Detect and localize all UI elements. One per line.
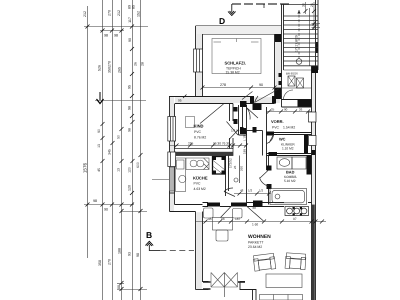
black sq corridor a	[234, 107, 238, 112]
kind wardrobe	[186, 117, 195, 128]
kueche labels	[193, 176, 208, 192]
dim v stair1	[305, 2, 307, 14]
svg-text:278: 278	[220, 83, 226, 87]
window kind west	[168, 117, 176, 142]
bad door swing	[260, 170, 269, 186]
entry door swing	[242, 92, 253, 100]
svg-text:15.38 M2: 15.38 M2	[226, 71, 240, 75]
extra left dim marks mid band	[97, 62, 145, 173]
landing cabinet a	[288, 76, 295, 86]
bathtub inner	[272, 190, 305, 203]
svg-text:25: 25	[271, 108, 275, 112]
gang door arcs	[260, 135, 274, 187]
wohnen door swing	[221, 207, 264, 222]
window wc east	[309, 136, 317, 146]
east wall outer	[315, 0, 317, 300]
bedroom right wall inner	[274, 34, 276, 100]
kind east wall line1	[229, 104, 231, 149]
svg-text:KÜCHE: KÜCHE	[193, 176, 208, 181]
svg-text:WC: WC	[279, 137, 286, 142]
step line y211	[170, 211, 196, 213]
svg-text:KIND: KIND	[194, 124, 204, 129]
dim line V1	[87, 6, 89, 258]
dim tick marks left block	[86, 25, 143, 292]
svg-text:90: 90	[259, 83, 263, 87]
kind door swing	[200, 104, 239, 140]
east wall stair edge	[317, 0, 319, 70]
svg-text:26: 26	[233, 165, 237, 169]
svg-text:B: B	[146, 230, 152, 240]
svg-text:188: 188	[118, 248, 122, 254]
black vorr door jamb right	[253, 127, 257, 133]
bed center	[236, 39, 238, 43]
dim connector y100	[95, 100, 146, 102]
svg-text:265: 265	[118, 67, 122, 73]
wohnen north wall segment fill1	[207, 203, 220, 207]
svg-text:120: 120	[128, 185, 132, 191]
svg-text:PVC: PVC	[194, 130, 202, 134]
svg-text:85: 85	[132, 5, 136, 9]
dining chair right	[233, 209, 243, 219]
svg-text:5.10 M2: 5.10 M2	[284, 179, 296, 183]
bedroom south wall inner	[175, 103, 275, 105]
black sq corridor b	[234, 119, 238, 124]
svg-text:48: 48	[240, 189, 244, 193]
dim line V4	[121, 0, 123, 300]
section marker D	[219, 4, 292, 26]
wall hatch fills (light)	[170, 27, 315, 290]
svg-text:270: 270	[108, 10, 112, 16]
stair treads	[284, 16, 319, 66]
svg-text:8.76 M2: 8.76 M2	[194, 136, 206, 140]
jamb bedroom door right	[272, 97, 276, 104]
dining table	[213, 218, 233, 231]
jamb entry left	[240, 101, 247, 107]
bedroom left wall inner	[202, 34, 204, 97]
dashed terrace line	[160, 250, 194, 252]
stairwell top wall	[282, 4, 319, 6]
east wall dark segment (wohnen)	[312, 205, 315, 300]
bedroom left wall outer	[195, 26, 197, 97]
bedroom top wall inner	[203, 33, 275, 35]
kind labels	[194, 124, 207, 140]
dim connector y283	[117, 283, 124, 285]
svg-text:98: 98	[128, 106, 132, 110]
svg-text:BAD: BAD	[286, 170, 295, 175]
black vorr door jamb left	[240, 127, 244, 133]
black bedroom east wall bottom	[275, 88, 281, 99]
black east wall stair corner	[312, 66, 319, 73]
svg-text:90: 90	[284, 108, 288, 112]
bottom couch	[260, 295, 303, 300]
svg-text:98: 98	[104, 34, 108, 38]
sofa 2	[285, 253, 306, 270]
black bad door jamb bottom	[267, 184, 272, 189]
svg-text:345: 345	[108, 149, 112, 155]
bad washbasin counter	[277, 157, 292, 169]
kueche sink circle 2	[197, 160, 204, 167]
svg-text:95: 95	[128, 85, 132, 89]
dim connector y211	[122, 211, 148, 213]
corridor gang extra details	[234, 156, 271, 194]
black bedroom east wall top	[275, 34, 281, 42]
wohnen south wall inner step	[240, 282, 253, 300]
svg-text:152: 152	[137, 11, 141, 17]
black bad east	[307, 156, 312, 175]
corridor east wall (kueche side)	[226, 156, 229, 197]
stair landing line	[284, 69, 312, 71]
right dim texts	[302, 3, 320, 48]
bathtub outer	[270, 189, 307, 205]
stair walk circle	[296, 59, 302, 65]
bad west wall	[267, 156, 269, 205]
dim line V3	[112, 0, 114, 300]
svg-text:45: 45	[97, 168, 101, 172]
black corridor c	[240, 128, 246, 134]
jamb bedroom door left	[250, 97, 254, 104]
black landing wall right	[298, 100, 312, 107]
svg-text:L 10: L 10	[243, 135, 247, 141]
bad cabinet	[292, 157, 306, 169]
kind interior dim line	[170, 145, 247, 147]
wc/bad divider	[267, 154, 312, 156]
svg-text:120: 120	[128, 167, 132, 173]
wohnen south wall right of door	[240, 282, 256, 300]
section marker A (left)	[97, 92, 104, 104]
svg-text:88: 88	[117, 285, 121, 289]
door leaf X left	[211, 273, 224, 288]
bed outline	[212, 39, 261, 74]
landing bottom wall	[282, 100, 312, 108]
svg-text:117: 117	[128, 17, 132, 23]
svg-text:50: 50	[117, 135, 121, 139]
vorr door swing	[267, 135, 274, 144]
svg-text:95: 95	[178, 99, 182, 103]
kind east wall line2	[232, 104, 234, 149]
svg-text:VORR.: VORR.	[271, 119, 284, 124]
svg-text:13: 13	[97, 144, 101, 148]
window kueche west	[168, 152, 176, 167]
corridor gang west line	[243, 107, 247, 205]
door threshold	[211, 286, 238, 288]
wohnen west wall outer	[195, 212, 197, 290]
svg-text:1 60: 1 60	[252, 223, 258, 227]
svg-text:260: 260	[240, 166, 244, 171]
kueche shaft box	[213, 157, 226, 175]
svg-text:270: 270	[108, 259, 112, 265]
svg-text:D: D	[219, 16, 225, 26]
vorr dim row	[266, 108, 312, 114]
east wall inner	[311, 66, 313, 300]
svg-text:45: 45	[208, 217, 212, 221]
svg-text:17x17.8/29: 17x17.8/29	[295, 35, 299, 52]
dim connector y289	[117, 289, 147, 291]
dim connector y179	[152, 179, 169, 181]
svg-text:90: 90	[128, 38, 132, 42]
svg-text:1/2 50: 1/2 50	[231, 129, 240, 133]
door leaf edge right	[237, 273, 239, 288]
dining chair bottom	[216, 230, 228, 241]
svg-text:WOHNEN: WOHNEN	[248, 234, 271, 240]
stairwell west wall outer	[281, 4, 283, 107]
door jamb stubs dark	[203, 282, 245, 289]
kueche round sink	[179, 175, 186, 182]
svg-text:98: 98	[93, 199, 97, 203]
bad south wall / wohnen north wall	[203, 203, 312, 207]
black east wall stair segment	[316, 42, 318, 53]
bedroom south wall outer	[169, 96, 282, 98]
bedroom top wall fill	[196, 26, 282, 34]
svg-text:28: 28	[141, 62, 145, 66]
stairwell west wall line2	[283, 4, 285, 70]
kueche counter left	[176, 158, 186, 192]
gang east line	[239, 156, 241, 184]
dim h right small	[312, 23, 321, 25]
dim v stair2	[313, 2, 315, 30]
bedroom door swing	[255, 89, 280, 103]
right dim ticks	[304, 9, 317, 30]
corridor strip lines	[239, 105, 247, 135]
pillow left	[214, 41, 222, 43]
door center post	[223, 273, 225, 298]
black stairwell wall jamb a	[279, 73, 282, 77]
black east wall bath segment	[312, 150, 316, 155]
black vorr/wc left	[266, 132, 274, 136]
step line kitchen south	[170, 192, 175, 194]
svg-text:PARKETT: PARKETT	[248, 241, 263, 245]
svg-text:98: 98	[136, 253, 140, 257]
black wc right wall	[304, 135, 308, 154]
svg-text:1576: 1576	[83, 162, 88, 173]
kind/kueche divider band	[175, 149, 234, 156]
entry corridor door arc	[247, 108, 259, 120]
svg-text:172/52: 172/52	[229, 158, 233, 168]
stair walk line	[298, 10, 300, 59]
svg-text:PVC: PVC	[272, 126, 280, 130]
wohnen west wall inner	[203, 212, 209, 282]
coffee table	[266, 274, 302, 288]
svg-text:SCHLAFZI.: SCHLAFZI.	[225, 61, 246, 66]
svg-text:90: 90	[315, 44, 319, 48]
svg-text:BR 90/26: BR 90/26	[286, 72, 298, 76]
gang dim line	[234, 193, 271, 195]
black bad north left	[269, 152, 278, 156]
svg-text:1.54 M2: 1.54 M2	[283, 126, 295, 130]
svg-text:98: 98	[128, 128, 132, 132]
pillow right	[251, 41, 259, 43]
svg-text:26: 26	[310, 3, 314, 7]
left dim texts (rotated)	[83, 5, 141, 289]
vorr/wc divider	[267, 133, 312, 135]
svg-text:1/2: 1/2	[259, 189, 264, 193]
kueche counter top hatched	[176, 158, 210, 192]
svg-text:68: 68	[253, 206, 257, 210]
door leaf X right	[224, 273, 237, 288]
svg-text:98: 98	[114, 34, 118, 38]
section marker B	[145, 230, 160, 251]
svg-text:97: 97	[293, 217, 297, 221]
west wall inner (KIND/KUECHE)	[174, 104, 176, 205]
door leaf edge left	[210, 273, 212, 288]
svg-text:255: 255	[188, 142, 194, 146]
wohnen south wall at door	[196, 289, 209, 291]
dim line V2	[102, 0, 104, 300]
bedroom top wall outer	[196, 25, 282, 27]
svg-text:358: 358	[98, 260, 102, 266]
svg-text:526: 526	[98, 65, 102, 71]
dim connector y205	[84, 204, 134, 206]
svg-text:30: 30	[302, 3, 306, 7]
svg-text:23.64 M2: 23.64 M2	[248, 245, 262, 249]
step dim 95	[178, 95, 187, 103]
svg-text:1.10 M2: 1.10 M2	[282, 147, 294, 151]
jamb entry black2	[253, 104, 262, 110]
vorr/wc west wall	[263, 107, 267, 156]
corridor south line y130	[247, 130, 263, 132]
svg-text:13: 13	[117, 168, 121, 172]
landing cabinet b	[297, 78, 304, 88]
bathtub drain	[275, 194, 280, 199]
wohnen north wall segment fill2	[231, 203, 247, 207]
black gang/bad jamb	[253, 201, 263, 207]
svg-text:93: 93	[128, 252, 132, 256]
dim connector y26	[84, 26, 148, 28]
dim connector y30	[100, 30, 124, 32]
boiler circle corridor	[234, 178, 238, 182]
sofa 1	[253, 253, 276, 271]
svg-text:90: 90	[104, 208, 108, 212]
svg-text:26: 26	[134, 62, 138, 66]
svg-text:187: 187	[235, 217, 241, 221]
west wall outer (KIND/KUECHE)	[169, 97, 171, 212]
window bedroom west	[194, 49, 203, 72]
svg-text:350: 350	[108, 67, 112, 73]
svg-text:26: 26	[299, 108, 303, 112]
svg-text:90: 90	[97, 129, 101, 133]
svg-text:4.63 M2: 4.63 M2	[194, 187, 206, 191]
landing door arc	[284, 90, 294, 100]
stair walk arrow	[297, 10, 300, 14]
black stairwell wall jamb b	[279, 81, 282, 85]
step line y204	[175, 204, 203, 206]
dim line V5	[132, 0, 134, 300]
black bad door jamb top	[267, 166, 272, 171]
svg-text:600: 600	[136, 162, 140, 168]
svg-text:270: 270	[108, 61, 112, 67]
kueche door swing	[224, 188, 235, 197]
svg-text:212: 212	[117, 10, 121, 16]
svg-text:1/2: 1/2	[248, 189, 253, 193]
dim line V6	[140, 0, 142, 300]
svg-text:PVC: PVC	[194, 182, 202, 186]
svg-text:212: 212	[83, 11, 87, 17]
stair handrail line	[309, 8, 311, 66]
bad labels	[284, 170, 297, 183]
bedroom dim line	[203, 87, 282, 89]
landing mid line	[282, 87, 312, 89]
window vorr east	[309, 112, 317, 122]
svg-text:96 30 76 30: 96 30 76 30	[213, 142, 230, 146]
svg-text:188: 188	[243, 149, 247, 154]
kueche sink circle 1	[190, 160, 197, 167]
dining chair left	[204, 208, 214, 218]
